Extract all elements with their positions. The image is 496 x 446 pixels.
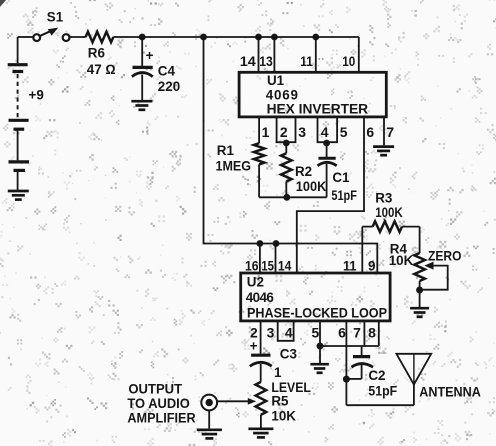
wiper R4 [423, 262, 448, 290]
svg-text:OUTPUT: OUTPUT [128, 382, 183, 397]
svg-text:+9: +9 [29, 88, 44, 103]
wire battery to S1 [18, 36, 34, 38]
svg-text:2: 2 [280, 124, 288, 140]
wiper R5 arrow [217, 398, 256, 405]
svg-text:R5: R5 [271, 394, 289, 409]
node U2 pin15 [273, 240, 280, 247]
wire pin14 U1 [258, 37, 260, 72]
wire R5 bottom [260, 415, 262, 428]
pin4 box U2 [278, 321, 294, 341]
svg-text:3: 3 [267, 325, 275, 341]
capacitor C3 [250, 339, 272, 382]
wire S1 to R6 [70, 36, 86, 38]
svg-text:U1: U1 [267, 73, 285, 88]
svg-text:R2: R2 [295, 164, 312, 179]
svg-text:6: 6 [366, 124, 374, 140]
ground battery [8, 191, 29, 200]
svg-text:11: 11 [343, 258, 357, 274]
wire pin1 U1 [258, 117, 260, 143]
wire pin11 U1 [315, 37, 317, 72]
ground jack [197, 411, 222, 439]
svg-text:4: 4 [285, 325, 293, 341]
svg-text:1MEG: 1MEG [216, 159, 252, 174]
potentiometer R5 [256, 382, 267, 415]
node C1 top [323, 140, 330, 147]
svg-text:15: 15 [261, 258, 274, 274]
wire pin11 U2 riser [361, 227, 363, 273]
ground C4 [131, 101, 152, 110]
resistor R2 [281, 143, 292, 197]
wire pin8 stub [378, 321, 380, 346]
wire pin16 riser [259, 244, 261, 274]
wire pin6 U1 jog [297, 117, 364, 273]
node R4 bottom [416, 287, 423, 294]
ground U2 pin5 [310, 346, 329, 373]
svg-text:14: 14 [240, 53, 256, 69]
potentiometer R4 [414, 253, 425, 281]
svg-text:+: + [250, 339, 258, 354]
svg-text:51pF: 51pF [368, 384, 397, 399]
wire pin7 stub [363, 321, 365, 346]
resistor R6 [86, 32, 114, 43]
svg-text:+: + [146, 48, 154, 63]
svg-text:8: 8 [368, 325, 376, 341]
wire pin2 U2 [260, 321, 262, 354]
svg-text:R1: R1 [217, 143, 235, 158]
svg-text:5: 5 [312, 325, 320, 341]
svg-text:100K: 100K [296, 179, 327, 194]
svg-text:9: 9 [368, 258, 376, 274]
svg-text:10K: 10K [271, 409, 296, 424]
ground R4 [410, 293, 429, 317]
svg-text:4069: 4069 [266, 88, 299, 103]
svg-text:C2: C2 [368, 368, 385, 383]
pin4 pin5 box U1 [318, 117, 338, 142]
svg-text:220: 220 [158, 79, 180, 94]
svg-text:C1: C1 [332, 170, 350, 185]
wire pin7 U1 [383, 117, 385, 145]
node pin14 [255, 34, 262, 41]
wire R3 to R4 [419, 227, 421, 253]
svg-text:R6: R6 [88, 46, 105, 61]
svg-text:6: 6 [338, 325, 346, 341]
resistor R3 [362, 221, 419, 232]
jack J1 [201, 395, 217, 411]
wire pin5 U2 [319, 321, 321, 346]
node pin5 gnd [317, 343, 324, 350]
ground U1 pin7 [373, 147, 394, 156]
wire pin10 U1 [358, 37, 360, 72]
capacitor C1 [318, 143, 337, 197]
svg-text:PHASE-LOCKED LOOP: PHASE-LOCKED LOOP [247, 306, 387, 321]
node R2 bottom [283, 194, 290, 201]
svg-text:TO AUDIO: TO AUDIO [127, 396, 189, 411]
resistor R1 [254, 143, 265, 164]
svg-text:11: 11 [300, 53, 313, 69]
svg-text:ANTENNA: ANTENNA [419, 385, 481, 400]
op-amp U2 4046 box [241, 273, 390, 321]
svg-text:7: 7 [386, 124, 394, 140]
ground R5 [248, 429, 273, 438]
wire rail to U2 bus [204, 37, 378, 273]
pin2 pin3 box U1 [277, 117, 296, 142]
wire pin13 U1 [273, 37, 275, 72]
wire R1 bottom [258, 164, 260, 197]
node U2 pin16 [257, 240, 264, 247]
wire top rail [113, 36, 358, 38]
node U2 feed junction [200, 34, 207, 41]
wire gnd bus U2 [320, 345, 379, 347]
svg-text:3: 3 [298, 124, 306, 140]
node C2 bottom [343, 376, 350, 383]
battery B1 +9V [8, 37, 29, 190]
capacitor C4 [132, 37, 154, 100]
svg-text:1: 1 [274, 365, 282, 380]
svg-text:47 Ω: 47 Ω [87, 62, 116, 77]
svg-text:10K: 10K [389, 253, 414, 268]
wire pin15 riser [275, 244, 277, 274]
svg-text:16: 16 [245, 258, 259, 274]
capacitor C2 [346, 346, 373, 379]
svg-text:51pF: 51pF [331, 188, 357, 203]
wire pin6 U2 down [345, 321, 347, 405]
wire antenna to pin6 [346, 404, 414, 406]
svg-text:4: 4 [321, 124, 329, 140]
svg-text:14: 14 [278, 258, 292, 274]
svg-text:C3: C3 [280, 347, 297, 362]
svg-text:AMPLIFIER: AMPLIFIER [127, 410, 195, 425]
svg-text:7: 7 [353, 325, 361, 341]
svg-text:HEX INVERTER: HEX INVERTER [267, 102, 369, 117]
antenna [396, 354, 431, 405]
node C4 junction [139, 34, 146, 41]
svg-text:ZERO: ZERO [428, 249, 462, 264]
svg-text:R3: R3 [375, 191, 392, 206]
svg-text:4046: 4046 [246, 290, 274, 305]
svg-text:U2: U2 [247, 275, 264, 290]
svg-text:10: 10 [342, 53, 355, 69]
wire R4 bottom [419, 281, 421, 293]
op-amp U1 4069 box [239, 72, 386, 117]
node pin11 [312, 34, 319, 41]
svg-text:100K: 100K [375, 205, 403, 220]
svg-text:S1: S1 [47, 10, 64, 25]
svg-text:5: 5 [340, 124, 348, 140]
node pin13 [271, 34, 278, 41]
svg-text:13: 13 [259, 53, 273, 69]
svg-text:C4: C4 [158, 64, 176, 79]
node R2 top [283, 140, 290, 147]
svg-text:1: 1 [262, 124, 270, 140]
switch S1 [33, 28, 69, 41]
wire R1 R2 C1 bottom [259, 196, 327, 198]
